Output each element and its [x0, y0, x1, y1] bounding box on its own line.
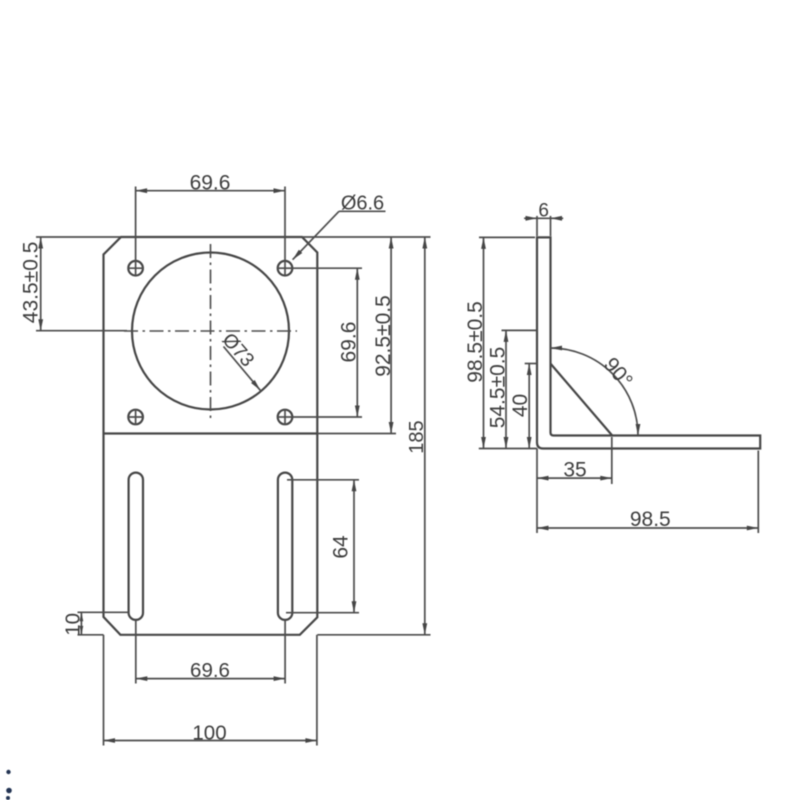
dimension 40 — [509, 364, 537, 449]
plate outline (front view, 100x185 with chamfered corners) — [104, 237, 318, 635]
dimension 185 overall height — [317, 237, 430, 635]
bend line across plate — [104, 432, 318, 434]
hole top-left — [128, 260, 144, 276]
dimension 100 overall width — [104, 635, 317, 746]
svg-text:69.6: 69.6 — [190, 171, 231, 194]
motor pilot circle D73 — [132, 253, 289, 410]
dimension 69.6 bottom between slots — [136, 620, 285, 684]
dimension 35 — [537, 437, 612, 533]
svg-text:98.5±0.5: 98.5±0.5 — [464, 301, 487, 383]
dimension 64 slot length — [286, 480, 359, 613]
gusset chord line — [551, 364, 613, 436]
svg-text:35: 35 — [563, 458, 586, 481]
hole top-right — [277, 260, 293, 276]
svg-text:6: 6 — [538, 200, 549, 221]
slot right — [278, 473, 292, 620]
dimension 98.5 leg length — [537, 451, 758, 534]
dimension 92.5±0.5 right — [302, 237, 431, 434]
label D73 with leader — [218, 329, 263, 392]
hole bottom-left — [128, 409, 144, 425]
L bracket side view outline — [537, 237, 760, 448]
svg-text:69.6: 69.6 — [190, 659, 230, 682]
circle centerline horizontal — [124, 330, 297, 332]
svg-text:185: 185 — [406, 420, 428, 453]
90 degree arc — [551, 346, 641, 436]
stray speck 1 — [6, 770, 10, 774]
stray speck 3 — [6, 796, 10, 800]
svg-text:10: 10 — [61, 613, 84, 636]
svg-text:Ø73: Ø73 — [218, 329, 259, 371]
svg-text:40: 40 — [509, 394, 532, 417]
dimension 54.5±0.5 — [486, 330, 537, 448]
dimension 98.5±0.5 leg height — [464, 237, 537, 448]
dimension 69.6 top — [136, 171, 285, 260]
label 90° — [599, 353, 637, 392]
hole bottom-right — [277, 409, 293, 425]
svg-text:90°: 90° — [599, 353, 637, 392]
svg-text:92.5±0.5: 92.5±0.5 — [372, 295, 395, 377]
svg-text:98.5: 98.5 — [630, 508, 671, 531]
slot left — [129, 473, 143, 620]
svg-text:54.5±0.5: 54.5±0.5 — [486, 347, 509, 429]
svg-text:43.5±0.5: 43.5±0.5 — [19, 242, 42, 324]
dimension 10 bottom-left — [61, 612, 128, 636]
circle centerline vertical — [210, 244, 212, 418]
dimension 69.6 vertical between right holes — [292, 268, 362, 417]
dimension 6 thickness — [524, 200, 563, 236]
svg-text:69.6: 69.6 — [337, 322, 360, 363]
dimension 43.5±0.5 left — [19, 237, 127, 331]
label D6.6 with leader — [291, 193, 386, 262]
svg-text:64: 64 — [329, 535, 352, 559]
svg-text:100: 100 — [192, 721, 226, 744]
stray speck 2 — [6, 788, 12, 794]
